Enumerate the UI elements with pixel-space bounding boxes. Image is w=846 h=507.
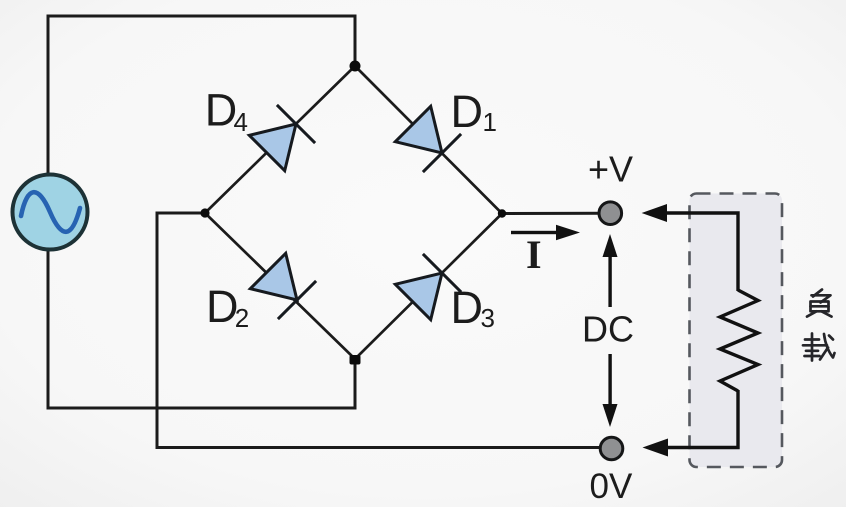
svg-text:2: 2 [235,303,249,333]
node: bridge top junction [350,61,361,72]
label 负 (load char 1) [807,290,832,317]
node: bridge right junction [498,209,506,217]
wire: AC source top to bridge top node [48,16,355,178]
load box (dashed) [690,194,783,468]
DC up arrow [603,234,618,307]
svg-text:0V: 0V [590,467,633,506]
wire: bridge arm bottom-left (D2 branch) [205,213,355,359]
svg-text:I: I [526,232,542,277]
terminal 0V [600,437,623,460]
wire: bridge right node to +V terminal [502,212,604,215]
wire: bridge left node to 0V rail [157,213,604,448]
svg-text:D: D [451,86,484,137]
diode D3 [395,254,461,320]
AC source [13,175,88,250]
terminal +V [599,202,622,225]
diode D4 [249,105,315,171]
load resistor RL (zigzag) [720,290,758,391]
node: bridge left junction [200,208,209,217]
svg-text:3: 3 [481,303,495,333]
svg-text:D: D [205,85,238,136]
DC down arrow [603,354,618,427]
wire: bridge arm top-left (D4 branch) [205,66,355,213]
svg-text:D: D [206,281,239,332]
wire: load resistor bottom lead with arrow into 0V [643,390,739,457]
diode D2 [250,253,316,319]
svg-text:D: D [451,282,484,333]
wire: AC source bottom to bridge bottom node [48,246,355,408]
node: bridge bottom junction [350,355,361,365]
svg-text:1: 1 [483,107,497,137]
svg-text:DC: DC [582,309,634,350]
current arrow I [511,225,580,241]
wire: bridge arm bottom-right (D3 branch) [355,214,502,360]
label 载 (load char 2) [803,334,835,361]
diode D1 [395,106,461,172]
svg-text:+V: +V [588,149,633,190]
wire: bridge arm top-right (D1 branch) [355,66,502,214]
svg-text:4: 4 [234,107,248,137]
wire: load resistor top lead with arrow into +V [642,204,738,291]
